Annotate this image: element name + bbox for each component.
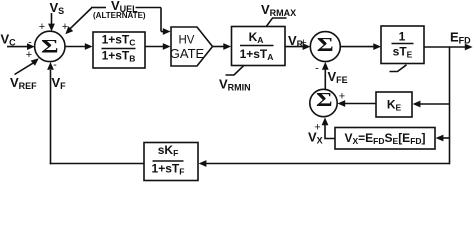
svg-text:-: - <box>315 63 319 75</box>
svg-text:-: - <box>28 36 32 48</box>
svg-text:Σ: Σ <box>316 89 333 111</box>
svg-text:1: 1 <box>399 30 406 44</box>
svg-text:+: + <box>62 21 68 33</box>
svg-text:(ALTERNATE): (ALTERNATE) <box>93 11 146 20</box>
svg-text:-: - <box>53 59 57 71</box>
svg-text:Σ: Σ <box>317 34 334 55</box>
svg-text:HV: HV <box>179 35 195 47</box>
svg-text:+: + <box>300 37 306 49</box>
svg-text:+: + <box>26 49 32 61</box>
svg-text:Σ: Σ <box>41 36 59 58</box>
svg-text:GATE: GATE <box>170 46 205 61</box>
svg-text:+: + <box>39 21 45 33</box>
svg-text:+: + <box>314 122 320 134</box>
svg-text:+: + <box>339 91 345 103</box>
